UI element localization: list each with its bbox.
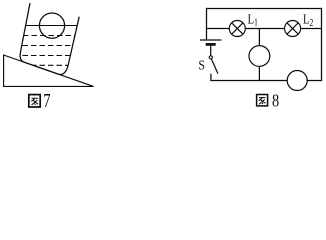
wire: node drop to meter A1 [258,28,260,46]
water dashed line 1 [15,35,88,37]
wire: top side [206,8,322,10]
wire: meter A1 to bottom side [258,66,260,81]
svg-text:S: S [198,56,205,72]
wire: lamp branch from node to L1 [206,28,230,30]
svg-text:7: 7 [43,90,51,111]
wire: L1 to L2 (through meter node) [245,28,284,30]
battery: short thick plate [206,43,216,46]
switch fixed contact stub [210,74,212,81]
beaker [20,3,79,74]
floating ball [39,13,64,38]
meter A2 [287,71,307,91]
wire: battery to switch pivot [210,46,212,56]
caption 图7 [29,95,40,107]
lamp L2 [285,21,301,37]
incline plane [4,55,94,86]
meter A1 [249,46,270,67]
switch blade (open) [212,59,219,73]
wire: right side [321,8,323,81]
caption 图8 [257,95,268,106]
water surface line [15,25,87,27]
wire: left vertical from top to battery [206,8,208,40]
battery: long plate [200,39,222,41]
wire: L2 to right side [301,28,322,30]
wire: bottom side right of meter A2 [307,80,322,82]
water dashed line 4 [14,64,87,66]
svg-text:8: 8 [272,90,279,111]
switch pivot terminal [209,56,212,59]
water dashed line 2 [14,45,87,47]
water dashed line 3 [14,55,87,57]
wire: bottom side left of meter A2 [211,80,288,82]
lamp L1 [229,21,245,37]
